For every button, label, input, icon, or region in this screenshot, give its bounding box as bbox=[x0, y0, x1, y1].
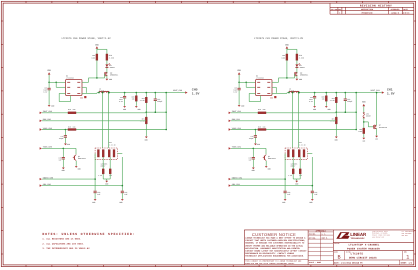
svg-text:LINDA B: LINDA B bbox=[391, 12, 399, 15]
svg-text:3. THE INTERMEDIATE BUS IS VDD: 3. THE INTERMEDIATE BUS IS VDD=5.0V bbox=[42, 247, 90, 250]
resistor R19 CH0 bbox=[106, 54, 114, 60]
resistor R14 feedback top CH0 bbox=[140, 93, 147, 118]
transistor Q7 MOSFET bbox=[374, 93, 387, 130]
off-page arrow VOUT CH0 bbox=[185, 91, 187, 93]
capacitor C18 CH1 bbox=[309, 93, 316, 106]
output voltage label CH0 bbox=[192, 87, 200, 95]
capacitor C15 CH1 bbox=[249, 148, 255, 167]
LED D1 CH0 bbox=[105, 63, 114, 69]
svg-text:Q1: Q1 bbox=[268, 155, 270, 158]
resistor R22 element 4 CH0 bbox=[113, 150, 115, 157]
wire DCR sense taps CH0 bbox=[98, 92, 110, 148]
wire IOUT row CH1 bbox=[231, 112, 336, 114]
op-amp U2 regulator IC CH1 bbox=[256, 75, 277, 100]
output voltage label CH1 bbox=[387, 87, 395, 95]
ground below RNET CH0 bbox=[105, 181, 108, 186]
svg-text:1uF: 1uF bbox=[314, 193, 317, 196]
title row bbox=[333, 242, 414, 250]
capacitor C17 CH0 bbox=[59, 130, 67, 144]
svg-text:1.8V: 1.8V bbox=[387, 92, 395, 96]
wire gate line CH1 bbox=[279, 74, 295, 82]
op-amp U2 regulator IC CH0 bbox=[66, 75, 87, 100]
wire RNET side drops CH1 bbox=[284, 154, 313, 191]
off-page arrow VOUT CH1 bbox=[382, 91, 384, 93]
svg-text:GND: GND bbox=[335, 138, 338, 141]
resistor R22 element 4 CH1 bbox=[303, 150, 305, 157]
svg-text:GND: GND bbox=[362, 140, 365, 142]
title block outline bbox=[244, 230, 413, 265]
ground below C20 CH0 bbox=[92, 199, 96, 204]
svg-text:LTC2975 CH0 POWER STAGE, VOUT=: LTC2975 CH0 POWER STAGE, VOUT=1.5V bbox=[62, 37, 112, 40]
svg-text:12/6/13: 12/6/13 bbox=[402, 12, 410, 15]
svg-text:LTC2975UP 4-CHANNEL: LTC2975UP 4-CHANNEL bbox=[348, 243, 379, 246]
wire LED to Q2 CH0 bbox=[106, 68, 108, 72]
capacitor C15 CH0 bbox=[59, 148, 65, 167]
ground below feedback divider CH1 bbox=[335, 137, 338, 142]
svg-text:www.linear.com: www.linear.com bbox=[372, 237, 384, 239]
ground below C17 CH0 bbox=[64, 143, 70, 146]
svg-text:GND: GND bbox=[78, 168, 81, 171]
svg-text:SIZE: SIZE bbox=[334, 252, 338, 254]
svg-text:TROY M.: TROY M. bbox=[322, 237, 328, 239]
ground below RNET CH1 bbox=[295, 181, 298, 186]
svg-text:LTC CONFIDENTIAL-: LTC CONFIDENTIAL- bbox=[402, 231, 416, 233]
capacitor C20 CH0 bbox=[94, 191, 101, 199]
svg-text:DATE: DATE bbox=[403, 8, 407, 11]
inductor L2 CH0 bbox=[99, 87, 109, 92]
svg-text:GND: GND bbox=[295, 182, 298, 185]
wire VSNS row CH1 bbox=[231, 129, 357, 131]
svg-text:GND: GND bbox=[105, 182, 108, 185]
svg-text:APPROVED: APPROVED bbox=[391, 8, 401, 11]
svg-text:DMN3051L: DMN3051L bbox=[110, 74, 118, 77]
svg-text:VOUT_CH1: VOUT_CH1 bbox=[371, 89, 381, 92]
transistor Q1 NPN CH1 bbox=[263, 148, 276, 160]
svg-text:2. ALL CAPACITORS ARE 16V 0603: 2. ALL CAPACITORS ARE 16V 0603. bbox=[42, 242, 84, 245]
ground below R20 CH1 bbox=[325, 106, 331, 111]
Linear Technology logo bbox=[336, 232, 367, 240]
off-page arrow TSNS_CH0 bbox=[40, 146, 53, 150]
logo address text bbox=[372, 231, 415, 239]
ground below Q7 bbox=[375, 136, 378, 141]
resistor R24 CH1 bbox=[299, 157, 302, 177]
svg-text:GND: GND bbox=[282, 201, 285, 204]
wire VDD input rail CH1 bbox=[238, 75, 255, 88]
svg-text:REVISION HISTORY: REVISION HISTORY bbox=[360, 5, 392, 8]
ground below C17 CH1 bbox=[254, 143, 260, 146]
date row bbox=[333, 260, 414, 265]
svg-text:GND: GND bbox=[257, 143, 260, 146]
capacitor C21 CH1 bbox=[311, 191, 318, 199]
wire gate line CH0 bbox=[89, 74, 105, 82]
capacitor C16 CH0 bbox=[43, 86, 50, 93]
svg-text:1uF: 1uF bbox=[287, 193, 290, 196]
capacitor C16 CH1 bbox=[233, 86, 240, 93]
power flag VDD (input) CH0 bbox=[47, 69, 51, 74]
svg-text:GND: GND bbox=[123, 108, 126, 111]
svg-text:G. S.: G. S. bbox=[322, 233, 327, 235]
LED D1 CH1 bbox=[295, 63, 304, 69]
svg-text:PCB DES.: PCB DES. bbox=[309, 233, 316, 235]
ground below C21 CH0 bbox=[119, 199, 123, 204]
svg-text:1uF: 1uF bbox=[97, 193, 100, 196]
resistor R19 CH1 bbox=[296, 54, 304, 60]
inductor L2 CH1 bbox=[289, 87, 299, 92]
off-page arrow RUN_CH0 bbox=[40, 118, 52, 122]
svg-text:GND: GND bbox=[268, 168, 271, 171]
resistor R24 CH0 bbox=[109, 157, 112, 177]
svg-text:1. ALL RESISTORS ARE 1% 0603.: 1. ALL RESISTORS ARE 1% 0603. bbox=[42, 237, 81, 240]
notes text block bbox=[42, 232, 135, 250]
wire IOUT row CH0 bbox=[42, 112, 146, 114]
svg-text:1.5V: 1.5V bbox=[192, 92, 200, 96]
ground below C21 CH1 bbox=[309, 199, 313, 204]
svg-text:GND: GND bbox=[375, 138, 378, 140]
wire TSNS row CH1 bbox=[231, 148, 266, 150]
wire Q1 emitter to GND CH1 bbox=[265, 161, 267, 166]
capacitor C20 CH1 bbox=[284, 191, 291, 199]
svg-text:1630 McCarthy Blvd.: 1630 McCarthy Blvd. bbox=[372, 231, 388, 233]
wire Q7 source to GND bbox=[376, 128, 378, 135]
svg-text:1: 1 bbox=[339, 12, 340, 15]
svg-text:GND: GND bbox=[299, 78, 302, 81]
ground below C15 CH1 bbox=[252, 168, 255, 173]
svg-text:GND: GND bbox=[80, 96, 83, 99]
wire node to Q7 gate bbox=[364, 122, 374, 127]
wire VDD33 row CH1 bbox=[231, 178, 285, 180]
resistor R23 CH1 bbox=[288, 157, 294, 177]
svg-text:SHEET: 1/4: SHEET: 1/4 bbox=[401, 261, 413, 264]
off-page arrow IOUT_CH1 bbox=[229, 110, 242, 114]
wire VDD input rail CH0 bbox=[48, 75, 65, 88]
svg-text:VOUT_CH0: VOUT_CH0 bbox=[173, 89, 183, 92]
svg-text:4.7uH: 4.7uH bbox=[99, 89, 104, 92]
capacitor C19 CH0 bbox=[154, 93, 163, 113]
off-page arrow RUN_CH1 bbox=[229, 118, 241, 122]
wire U2 SW output CH1 bbox=[272, 82, 289, 93]
resistor R22 element 2 CH0 bbox=[102, 150, 104, 157]
resistor network R22 dashed box CH1 bbox=[285, 141, 308, 159]
ground below C20 CH1 bbox=[282, 199, 286, 204]
wire RUN row CH1 bbox=[231, 120, 336, 122]
wire RNET bottom to GND CH1 bbox=[293, 174, 300, 181]
resistor R20 CH0 bbox=[132, 93, 138, 106]
wire U2 lower loop CH0 bbox=[59, 93, 70, 101]
ground below C16 CH1 bbox=[238, 104, 245, 107]
svg-text:2.21k: 2.21k bbox=[299, 56, 304, 59]
svg-text:GND: GND bbox=[51, 104, 54, 107]
wire VSNS row CH0 bbox=[42, 129, 167, 131]
ground below Q2 CH0 bbox=[106, 78, 113, 81]
wire VOUT rail CH0 bbox=[109, 92, 185, 94]
svg-text:1uF: 1uF bbox=[124, 193, 127, 196]
svg-text:4.7uH: 4.7uH bbox=[289, 89, 294, 92]
resistor R22 element 3 CH1 bbox=[298, 150, 300, 157]
ground below C15 CH0 bbox=[62, 168, 65, 173]
wire VDD33 row CH0 bbox=[42, 178, 95, 180]
svg-text:LTC2975 CH1 POWER STAGE, VOUT=: LTC2975 CH1 POWER STAGE, VOUT=1.8V bbox=[254, 37, 304, 40]
label below RNET CH0 bbox=[101, 163, 108, 168]
svg-text:DMG1012UW: DMG1012UW bbox=[379, 127, 387, 129]
junction Q7 drain on VOUT rail bbox=[376, 92, 378, 94]
capacitor C17 CH1 bbox=[249, 130, 257, 144]
wire feedback node CH0 bbox=[146, 93, 167, 130]
svg-text:USE ONLY: USE ONLY bbox=[402, 235, 409, 237]
svg-text:TECHNOLOGY: TECHNOLOGY bbox=[351, 237, 366, 240]
off-page arrow VDD33_CH0 bbox=[40, 176, 54, 180]
svg-text:GND: GND bbox=[313, 108, 316, 111]
transistor Q2 MOSFET CH0 bbox=[105, 71, 119, 76]
svg-text:GND: GND bbox=[270, 96, 273, 99]
svg-text:TECHNOLOGY APPLICATIONS ENGINE: TECHNOLOGY APPLICATIONS ENGINEERING FOR … bbox=[245, 254, 304, 257]
svg-text:GND: GND bbox=[109, 78, 112, 81]
approvals column bbox=[308, 229, 333, 265]
ground below Q1 CH0 bbox=[75, 166, 81, 171]
resistor R20 CH1 bbox=[322, 93, 328, 106]
wire R19 to LED CH0 bbox=[106, 60, 108, 64]
wire RNET bottom to GND CH0 bbox=[103, 174, 110, 181]
resistor R23 CH0 bbox=[98, 157, 104, 177]
resistor R14 feedback top CH1 bbox=[330, 93, 337, 118]
customer notice body text bbox=[244, 237, 308, 265]
svg-text:SCALE : NONE: SCALE : NONE bbox=[309, 261, 321, 264]
svg-text:GND: GND bbox=[62, 169, 65, 172]
wire U2 lower loop CH1 bbox=[249, 93, 260, 101]
resistor network R22 dashed box CH0 bbox=[95, 141, 118, 159]
wire R18 to gate node CH1 bbox=[286, 60, 288, 78]
svg-text:PRODUCTION: PRODUCTION bbox=[362, 12, 373, 15]
svg-text:APP ENG.: APP ENG. bbox=[309, 237, 316, 239]
svg-text:LTC2975: LTC2975 bbox=[351, 253, 364, 256]
wire DCR sense taps CH1 bbox=[288, 92, 300, 148]
svg-text:GND: GND bbox=[145, 138, 148, 141]
wire SDA row CH0 bbox=[42, 185, 122, 187]
off-page arrow TSNS_CH1 bbox=[229, 146, 242, 150]
power flag VDD (top) CH1 bbox=[285, 43, 289, 48]
wire R18 to gate node CH0 bbox=[96, 60, 98, 78]
svg-text:GND: GND bbox=[309, 201, 312, 204]
svg-text:DEMO CIRCUIT 2022A: DEMO CIRCUIT 2022A bbox=[349, 256, 377, 259]
ground below C18 CH0 bbox=[123, 106, 126, 111]
resistor R16 CH1 bbox=[258, 108, 266, 114]
wire VDD to jumper bbox=[363, 106, 365, 112]
wire R19 to LED CH1 bbox=[296, 60, 298, 64]
svg-text:POWER SYSTEM MANAGER: POWER SYSTEM MANAGER bbox=[347, 248, 380, 251]
ground below C18 CH1 bbox=[313, 106, 316, 111]
ground below Q2 CH1 bbox=[296, 78, 303, 81]
wire jumper to node bbox=[363, 118, 365, 128]
resistor R15 CH0 bbox=[68, 125, 76, 130]
svg-text:2.21k: 2.21k bbox=[109, 56, 114, 59]
resistor R21 feedback bottom CH1 bbox=[330, 111, 337, 136]
capacitor C18 CH0 bbox=[119, 93, 126, 106]
wire Q2 source to GND CH1 bbox=[296, 76, 298, 79]
wire U2 SW output CH0 bbox=[82, 82, 99, 93]
wire SDA row CH1 bbox=[231, 185, 312, 187]
svg-text:100pF: 100pF bbox=[157, 100, 162, 103]
svg-text:NOTES: UNLESS OTHERWISE SPECIF: NOTES: UNLESS OTHERWISE SPECIFIED: bbox=[42, 232, 135, 236]
svg-text:DMN3051L: DMN3051L bbox=[300, 74, 308, 77]
svg-text:DATE: 1/13/2014 DESIGN PM: DATE: 1/13/2014 DESIGN PM bbox=[334, 261, 363, 264]
wire C16 to GND CH0 bbox=[48, 90, 50, 105]
size and part number row bbox=[333, 251, 414, 261]
power flag VDD (load block) bbox=[362, 100, 366, 106]
svg-text:GND: GND bbox=[241, 104, 244, 107]
resistor R26 bbox=[358, 128, 364, 134]
resistor R21 feedback bottom CH0 bbox=[140, 111, 147, 136]
wire Q2 source to GND CH0 bbox=[106, 76, 108, 79]
capacitor C19 CH1 bbox=[344, 93, 353, 113]
power flag VDD (top) CH0 bbox=[95, 43, 99, 48]
svg-text:GND: GND bbox=[119, 201, 122, 204]
svg-text:GND: GND bbox=[67, 143, 70, 146]
resistor R22 element 2 CH1 bbox=[292, 150, 294, 157]
customer notice box bbox=[252, 230, 308, 265]
resistor R22 element 1 CH0 bbox=[97, 150, 99, 157]
transistor Q2 MOSFET CH1 bbox=[295, 71, 309, 76]
off-page arrow VSNS_CH1 bbox=[229, 127, 242, 131]
wire VDD to R branches CH1 bbox=[287, 49, 297, 54]
resistor R22 element 3 CH0 bbox=[108, 150, 110, 157]
svg-text:GND: GND bbox=[92, 201, 95, 204]
wire Q1 emitter to GND CH0 bbox=[75, 161, 77, 166]
wire RNET side drops CH0 bbox=[94, 154, 123, 191]
ground below R20 CH0 bbox=[135, 106, 141, 111]
resistor R18 CH0 bbox=[91, 54, 97, 60]
svg-text:GND: GND bbox=[138, 108, 141, 111]
svg-text:GND: GND bbox=[252, 169, 255, 172]
wire RUN row CH0 bbox=[42, 120, 146, 122]
svg-text:U2: U2 bbox=[66, 75, 68, 78]
svg-text:Q1: Q1 bbox=[78, 155, 80, 158]
resistor R16 CH0 bbox=[68, 108, 76, 114]
off-page arrow SDA_CH0 bbox=[40, 183, 52, 187]
ground below R26 bbox=[362, 134, 365, 143]
wire VOUT rail CH1 bbox=[299, 92, 382, 94]
wire VDD to R branches CH0 bbox=[97, 49, 107, 54]
svg-text:GND: GND bbox=[328, 108, 331, 111]
svg-text:FOR CUSTOMER: FOR CUSTOMER bbox=[402, 233, 412, 235]
svg-text:Milpitas, CA 95035: Milpitas, CA 95035 bbox=[372, 233, 387, 235]
ground below feedback divider CH0 bbox=[145, 137, 148, 142]
wire feedback node CH1 bbox=[336, 93, 357, 130]
ground below Q1 CH1 bbox=[265, 166, 271, 171]
svg-text:U2: U2 bbox=[256, 75, 258, 78]
svg-text:100pF: 100pF bbox=[347, 100, 352, 103]
resistor R22 element 1 CH1 bbox=[287, 150, 289, 157]
off-page arrow VDD33_CH1 bbox=[229, 176, 243, 180]
ground below C16 CH0 bbox=[48, 104, 55, 107]
resistor R15 CH1 bbox=[258, 125, 266, 130]
svg-text:DESCRIPTION: DESCRIPTION bbox=[361, 8, 373, 11]
transistor Q1 NPN CH0 bbox=[73, 148, 86, 160]
jumper JP2 SHORT bbox=[363, 112, 371, 118]
svg-text:Phone: (408) 432-1900: Phone: (408) 432-1900 bbox=[372, 235, 390, 237]
capacitor C21 CH0 bbox=[121, 191, 128, 199]
wire LED to Q2 CH1 bbox=[296, 68, 298, 72]
off-page arrow VSNS_CH0 bbox=[40, 127, 53, 131]
svg-text:REV: REV bbox=[404, 252, 407, 254]
revision history table bbox=[330, 3, 414, 14]
svg-text:LINEAR: LINEAR bbox=[350, 232, 367, 237]
power flag VDD (input) CH1 bbox=[237, 69, 241, 74]
resistor R18 CH1 bbox=[281, 54, 287, 60]
wire TSNS row CH0 bbox=[42, 148, 76, 150]
off-page arrow IOUT_CH0 bbox=[40, 110, 53, 114]
wire C16 to GND CH1 bbox=[238, 90, 240, 105]
off-page arrow SDA_CH1 bbox=[229, 183, 241, 187]
label below RNET CH1 bbox=[291, 163, 298, 168]
